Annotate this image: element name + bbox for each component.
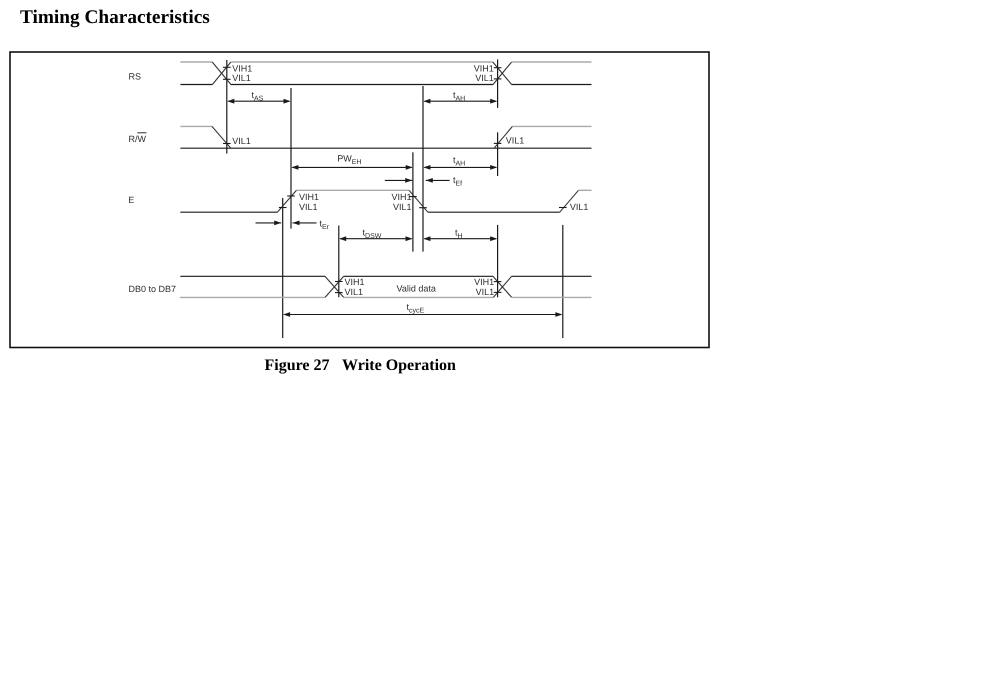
- tEr right arrow: [293, 222, 317, 224]
- svg-text:Figure 27Write Operation: Figure 27Write Operation: [265, 357, 457, 374]
- tEf right arrow: [426, 179, 450, 181]
- E VIH1 tick rise1: [287, 195, 295, 197]
- E rising edge 2: [560, 190, 579, 212]
- RS crossover 1 falling diagonal: [212, 62, 231, 85]
- svg-text:VIL1: VIL1: [299, 202, 318, 212]
- svg-text:VIL1: VIL1: [475, 73, 494, 83]
- svg-text:VIL1: VIL1: [506, 136, 525, 146]
- tEr left arrow: [256, 222, 282, 224]
- svg-text:tEf: tEf: [453, 175, 462, 188]
- DB crossover 1 falling diagonal: [325, 276, 344, 297]
- RS crossover 1 rising diagonal: [212, 62, 231, 85]
- ref line E x=423 (tAH left / E fall VIL1): [422, 86, 424, 252]
- svg-text:Valid data: Valid data: [397, 284, 436, 294]
- DB low rail right: [512, 296, 592, 298]
- E low rail left: [180, 211, 277, 213]
- RS high rail right: [512, 61, 592, 63]
- E low rail middle: [428, 211, 560, 213]
- tAS dimension arrow: [228, 100, 289, 102]
- svg-text:tcycE: tcycE: [407, 302, 425, 315]
- tCYCE dimension arrow: [284, 314, 561, 316]
- svg-text:VIL1: VIL1: [345, 287, 364, 297]
- RS crossover 2 falling diagonal: [493, 62, 512, 85]
- svg-text:VIH1: VIH1: [474, 277, 494, 287]
- E rising edge 1: [277, 190, 296, 212]
- RS VIL1 tick left: [223, 78, 231, 80]
- svg-text:tAH: tAH: [453, 90, 465, 103]
- DB VIL1 tick right: [494, 291, 502, 293]
- R/W VIL1 tick left: [223, 143, 231, 145]
- RS VIH1 tick left: [223, 66, 231, 68]
- ref line F x=497.6 segment 1 (RS cross 2 / tAH right): [497, 59, 499, 108]
- DB high rail left: [180, 275, 325, 277]
- svg-text:VIH1: VIH1: [474, 64, 494, 74]
- svg-text:tDSW: tDSW: [363, 227, 382, 240]
- R/W low rail (full width): [180, 147, 591, 149]
- E VIH1 tick fall: [409, 196, 417, 198]
- E high rail right: [579, 189, 592, 191]
- svg-text:VIL1: VIL1: [476, 287, 495, 297]
- ref line C x=338.8 (tDSW left / DB cross 1): [338, 226, 340, 298]
- RS VIH1 tick right: [494, 67, 502, 69]
- ref line G x=562.8 (E rise 2 / tCYCE right): [562, 225, 564, 338]
- svg-text:VIH1: VIH1: [345, 277, 365, 287]
- RS VIL1 tick right: [494, 78, 502, 80]
- PWEH dimension arrow: [292, 166, 411, 168]
- R/W high rail left: [180, 125, 212, 127]
- E high rail: [297, 189, 410, 191]
- DB VIH1 tick right: [494, 281, 502, 283]
- tAH dimension arrow row2: [424, 166, 496, 168]
- E VIL1 tick rise2: [559, 207, 567, 209]
- E falling edge: [409, 190, 428, 212]
- svg-text:VIH1: VIH1: [391, 192, 411, 202]
- tH dimension arrow: [424, 238, 496, 240]
- R/W high rail right: [512, 125, 591, 127]
- svg-text:DB0 to DB7: DB0 to DB7: [129, 284, 177, 294]
- RS low rail right: [512, 84, 592, 86]
- svg-text:tH: tH: [455, 227, 463, 240]
- DB VIH1 tick left: [335, 281, 343, 283]
- E VIL1 tick fall: [419, 207, 427, 209]
- DB crossover 2 falling diagonal: [493, 276, 512, 297]
- ref line B x=291 (tAS right / PWEH left / E rise VIH1): [290, 88, 292, 229]
- DB VIL1 tick left: [335, 292, 343, 294]
- overline on W of R/W: [137, 132, 146, 134]
- R/W falling edge: [212, 126, 231, 148]
- R/W rising edge: [494, 126, 512, 148]
- E VIL1 tick rise1: [279, 207, 287, 209]
- DB high rail right: [512, 275, 592, 277]
- svg-text:VIL1: VIL1: [232, 73, 251, 83]
- tDSW dimension arrow: [340, 238, 411, 240]
- svg-text:tEr: tEr: [320, 219, 330, 232]
- svg-text:PWEH: PWEH: [337, 154, 361, 167]
- DB low rail middle: [344, 296, 494, 298]
- ref line D x=412.9 (PWEH right / E fall VIH1): [412, 152, 414, 251]
- diagram frame: [10, 52, 709, 348]
- svg-text:VIL1: VIL1: [570, 202, 589, 212]
- ref line F x=497.6 segment 3 (tH right / DB cross 2): [497, 225, 499, 297]
- tAH dimension arrow row1: [424, 100, 496, 102]
- svg-text:E: E: [128, 195, 134, 205]
- ref line F x=497.6 segment 2 (R/W rise / tAH right): [497, 132, 499, 176]
- ref line A x=226.8 (RS cross 1 / tAS left): [226, 60, 228, 154]
- RS high rail left: [180, 61, 212, 63]
- RS high rail middle: [231, 61, 493, 63]
- tEf left arrow: [385, 179, 412, 181]
- R/W VIL1 tick right: [494, 142, 502, 144]
- DB high rail middle: [344, 275, 493, 277]
- DB crossover 2 rising diagonal: [493, 276, 511, 297]
- RS crossover 2 rising diagonal: [493, 62, 512, 85]
- DB crossover 1 rising diagonal: [325, 276, 344, 297]
- RS low rail middle: [231, 84, 493, 86]
- svg-text:Timing Characteristics: Timing Characteristics: [20, 7, 210, 28]
- svg-text:VIL1: VIL1: [393, 202, 412, 212]
- ref line B2 x=282.7 (E rise VIL1 / tCYCE left): [282, 198, 284, 338]
- svg-text:R/W: R/W: [129, 134, 147, 144]
- svg-text:VIL1: VIL1: [232, 136, 251, 146]
- svg-text:tAH: tAH: [453, 155, 465, 168]
- svg-text:VIH1: VIH1: [232, 64, 252, 74]
- svg-text:tAS: tAS: [252, 90, 264, 103]
- svg-text:RS: RS: [129, 71, 142, 81]
- svg-text:VIH1: VIH1: [299, 192, 319, 202]
- RS low rail left: [180, 84, 212, 86]
- DB low rail left: [180, 296, 325, 298]
